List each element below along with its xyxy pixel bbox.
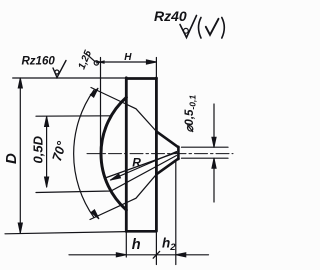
bottom dimension line h,h2 [69, 254, 209, 256]
0,5D dimension line [46, 117, 48, 188]
H right extension (above flange) [155, 58, 157, 79]
70 deg dimension arc [74, 90, 94, 218]
0,5D top extension line [36, 115, 111, 117]
part outline: top edge of flange [126, 77, 156, 80]
svg-text:0,5D: 0,5D [31, 135, 46, 163]
H arrow left (bowtie right half) [98, 60, 105, 64]
svg-text:h2: h2 [162, 236, 176, 254]
Rz160 roughness symbol [53, 61, 66, 78]
svg-text:⌀0,5-0,1: ⌀0,5-0,1 [184, 95, 198, 133]
arrowhead 70 arc upper [90, 87, 99, 97]
dia 0,5 dimension line upper [213, 104, 215, 147]
wire: bottom D extension line [5, 232, 126, 234]
centerline (axis, dash-dot) [87, 153, 233, 155]
R radius line [111, 152, 177, 181]
h2 arrow (outside, pointing left) [176, 253, 186, 257]
H dimension line [96, 61, 156, 63]
svg-text:h: h [132, 237, 141, 253]
cone upper generator (thick) [156, 131, 178, 147]
0,5D bottom extension line [36, 156, 177, 193]
svg-text:Rz40: Rz40 [154, 8, 187, 24]
wire: top surface extension line (left, carries Rz160) [13, 77, 127, 79]
svg-text:Rz160: Rz160 [22, 56, 56, 68]
H arrow right [146, 60, 156, 64]
70 deg leg lower (thin extension of generator) [90, 174, 156, 219]
slash tick between h and h2 [153, 251, 159, 258]
svg-text:R: R [132, 155, 141, 169]
part outline: left flat face [125, 78, 128, 232]
0,5D arrow down [45, 177, 49, 187]
D dimension line [19, 78, 21, 233]
Rz40 symbol circle [184, 28, 189, 33]
h arrow (outside, pointing right) [116, 253, 126, 257]
D arrow up [18, 78, 22, 88]
cone tip flat (dia 0,5) [177, 147, 180, 159]
h/h2 extension line middle [155, 231, 157, 265]
dia 0,5 arrow down [212, 137, 216, 147]
1,25 arrow (bowtie left half) [96, 61, 102, 64]
dia 0,5 lower extension line [182, 157, 229, 159]
fan line from tip to sphere arc [107, 153, 177, 178]
svg-text:H: H [124, 52, 132, 63]
arrowhead 70 arc lower [91, 210, 100, 220]
part outline: right face of flange [155, 78, 158, 231]
0,5D arrow up [45, 117, 49, 127]
svg-text:D: D [3, 153, 20, 164]
70 deg leg upper (thin extension of generator) [91, 88, 156, 132]
h extension line left [125, 232, 127, 258]
dia 0,5 upper extension line [182, 146, 229, 148]
left parenthesis [199, 18, 202, 39]
dia 0,5 dimension line lower [213, 158, 215, 202]
Rz160 symbol circle [55, 70, 59, 74]
spherical surface arc R [101, 97, 126, 210]
D arrow down [18, 223, 22, 233]
svg-text:70°: 70° [49, 139, 69, 163]
rest-of-surfaces check [206, 19, 219, 35]
svg-text:1,25: 1,25 [77, 49, 95, 72]
h2 extension line right (tip plane) [175, 160, 177, 265]
cone lower generator (thick) [156, 159, 178, 175]
H left extension line (sphere vertex plane) [100, 58, 102, 150]
right parenthesis [222, 18, 225, 39]
part outline: bottom edge of flange [126, 230, 156, 233]
R arrow on arc [110, 174, 121, 182]
dia 0,5 arrow up [212, 158, 216, 168]
Rz40 roughness symbol [180, 16, 197, 38]
1,25 leader circle [94, 61, 98, 65]
1,25 leader line [87, 54, 96, 62]
